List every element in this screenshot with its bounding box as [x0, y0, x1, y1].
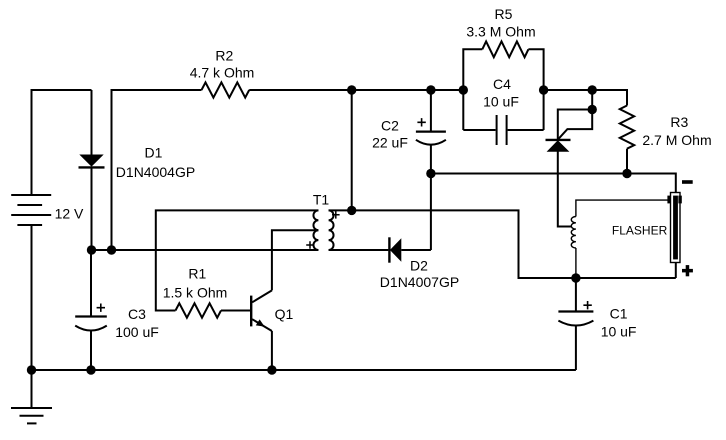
junction dot R3 bottom: [622, 169, 631, 178]
svg-text:FLASHER: FLASHER: [612, 224, 668, 238]
plus C3: [97, 304, 105, 312]
svg-text:22 uF: 22 uF: [372, 135, 408, 151]
junction dot C3 rail: [86, 365, 95, 374]
plus T1 primary: [306, 241, 314, 249]
wire C2 top lead: [430, 90, 432, 132]
svg-text:R5: R5: [495, 6, 513, 22]
wire C3 top lead: [90, 250, 92, 317]
wire T1 node to flasher bottom: [352, 210, 676, 278]
wire tank bottom right: [508, 129, 544, 131]
svg-text:12 V: 12 V: [55, 206, 84, 222]
junction dot C2 top: [426, 85, 435, 94]
wire battery positive to D1 anode: [32, 90, 92, 195]
wire node C to flasher minus: [431, 174, 676, 193]
resistor R3: [620, 106, 634, 149]
junction dot SCR branch: [588, 85, 597, 94]
thyristor X1: [546, 110, 593, 227]
plus C2: [417, 118, 425, 126]
wire D2 to C2 node: [430, 174, 432, 251]
svg-text:1.5 k Ohm: 1.5 k Ohm: [163, 285, 228, 301]
svg-text:C4: C4: [493, 76, 511, 92]
svg-text:D1: D1: [145, 145, 163, 161]
wire Q1 emitter to rail: [271, 331, 273, 370]
svg-text:C3: C3: [128, 306, 146, 322]
diode D1: [79, 90, 105, 250]
junction dot SCR gate node: [588, 105, 597, 114]
wire tank right side: [528, 49, 543, 130]
wire SCR node to R3: [592, 90, 627, 106]
wire tank to SCR node: [544, 89, 593, 91]
junction dot D1 node: [87, 245, 96, 254]
svg-text:C2: C2: [381, 118, 399, 134]
ground: [11, 370, 52, 423]
svg-text:D1N4007GP: D1N4007GP: [380, 274, 459, 290]
junction dot node A: [107, 245, 116, 254]
wire node B to T1 secondary: [329, 90, 352, 210]
svg-text:2.7 M Ohm: 2.7 M Ohm: [642, 132, 711, 148]
wire T1 primary bottom row: [92, 249, 319, 251]
resistor R1: [176, 303, 222, 317]
junction dot battery rail: [27, 365, 36, 374]
svg-text:10 uF: 10 uF: [601, 324, 637, 340]
transformer T1 secondary winding: [329, 210, 334, 250]
svg-text:100 uF: 100 uF: [115, 324, 159, 340]
svg-text:10 uF: 10 uF: [483, 94, 519, 110]
junction dot tank right: [539, 85, 548, 94]
wire tank bottom left: [463, 129, 495, 131]
wire tank left side: [463, 49, 482, 130]
wire node B to C2 top: [352, 89, 431, 91]
trigger coil L1: [571, 217, 576, 249]
junction dot flasher bottom: [571, 273, 580, 282]
wire T1 secondary bottom to D2: [329, 249, 389, 251]
resistor R2: [202, 82, 250, 97]
capacitor C2: [416, 132, 446, 174]
wire C2 top to tank: [431, 89, 463, 91]
svg-text:T1: T1: [313, 192, 330, 208]
svg-text:4.7 k Ohm: 4.7 k Ohm: [190, 65, 255, 81]
wire C1 top lead: [575, 278, 577, 312]
svg-text:D1N4004GP: D1N4004GP: [116, 164, 195, 180]
wire R2 to node B: [249, 89, 352, 91]
junction dot node B: [347, 85, 356, 94]
capacitor C1: [558, 312, 593, 371]
wire T1 primary mid to Q1 collector: [272, 230, 319, 290]
wire trigger coil top to tube: [576, 200, 668, 216]
svg-text:R3: R3: [670, 114, 688, 130]
transistor Q1: [251, 290, 272, 331]
battery V1 12V: [11, 195, 51, 370]
junction dot T1 secondary top: [347, 206, 356, 215]
plus T1 secondary: [332, 211, 340, 219]
svg-text:R1: R1: [188, 266, 206, 282]
capacitor C4: [497, 115, 507, 145]
junction dot tank left: [459, 85, 468, 94]
svg-text:D2: D2: [410, 258, 428, 274]
wire node A riser: [112, 90, 202, 250]
junction dot C2 bottom: [426, 169, 435, 178]
svg-text:C1: C1: [610, 306, 628, 322]
minus terminal label: [682, 180, 693, 184]
junction dot emitter rail: [267, 365, 276, 374]
transformer T1 primary winding: [313, 210, 318, 250]
wire R3 to node C: [626, 149, 628, 174]
diode D2: [389, 237, 431, 262]
svg-text:3.3 M Ohm: 3.3 M Ohm: [466, 24, 535, 40]
svg-text:Q1: Q1: [275, 306, 294, 322]
plus C1: [583, 301, 591, 309]
wire trigger coil bottom lead: [575, 248, 577, 278]
wire R1 to Q1 base: [221, 310, 250, 312]
capacitor C3: [75, 317, 107, 371]
bottom rail: [32, 369, 576, 371]
wire T1 primary top to R1: [156, 210, 319, 310]
resistor R5: [482, 41, 528, 57]
flasher lamp: [667, 193, 681, 279]
wire SCR node riser: [591, 90, 593, 110]
svg-text:R2: R2: [215, 48, 233, 64]
plus terminal label: [682, 265, 693, 276]
